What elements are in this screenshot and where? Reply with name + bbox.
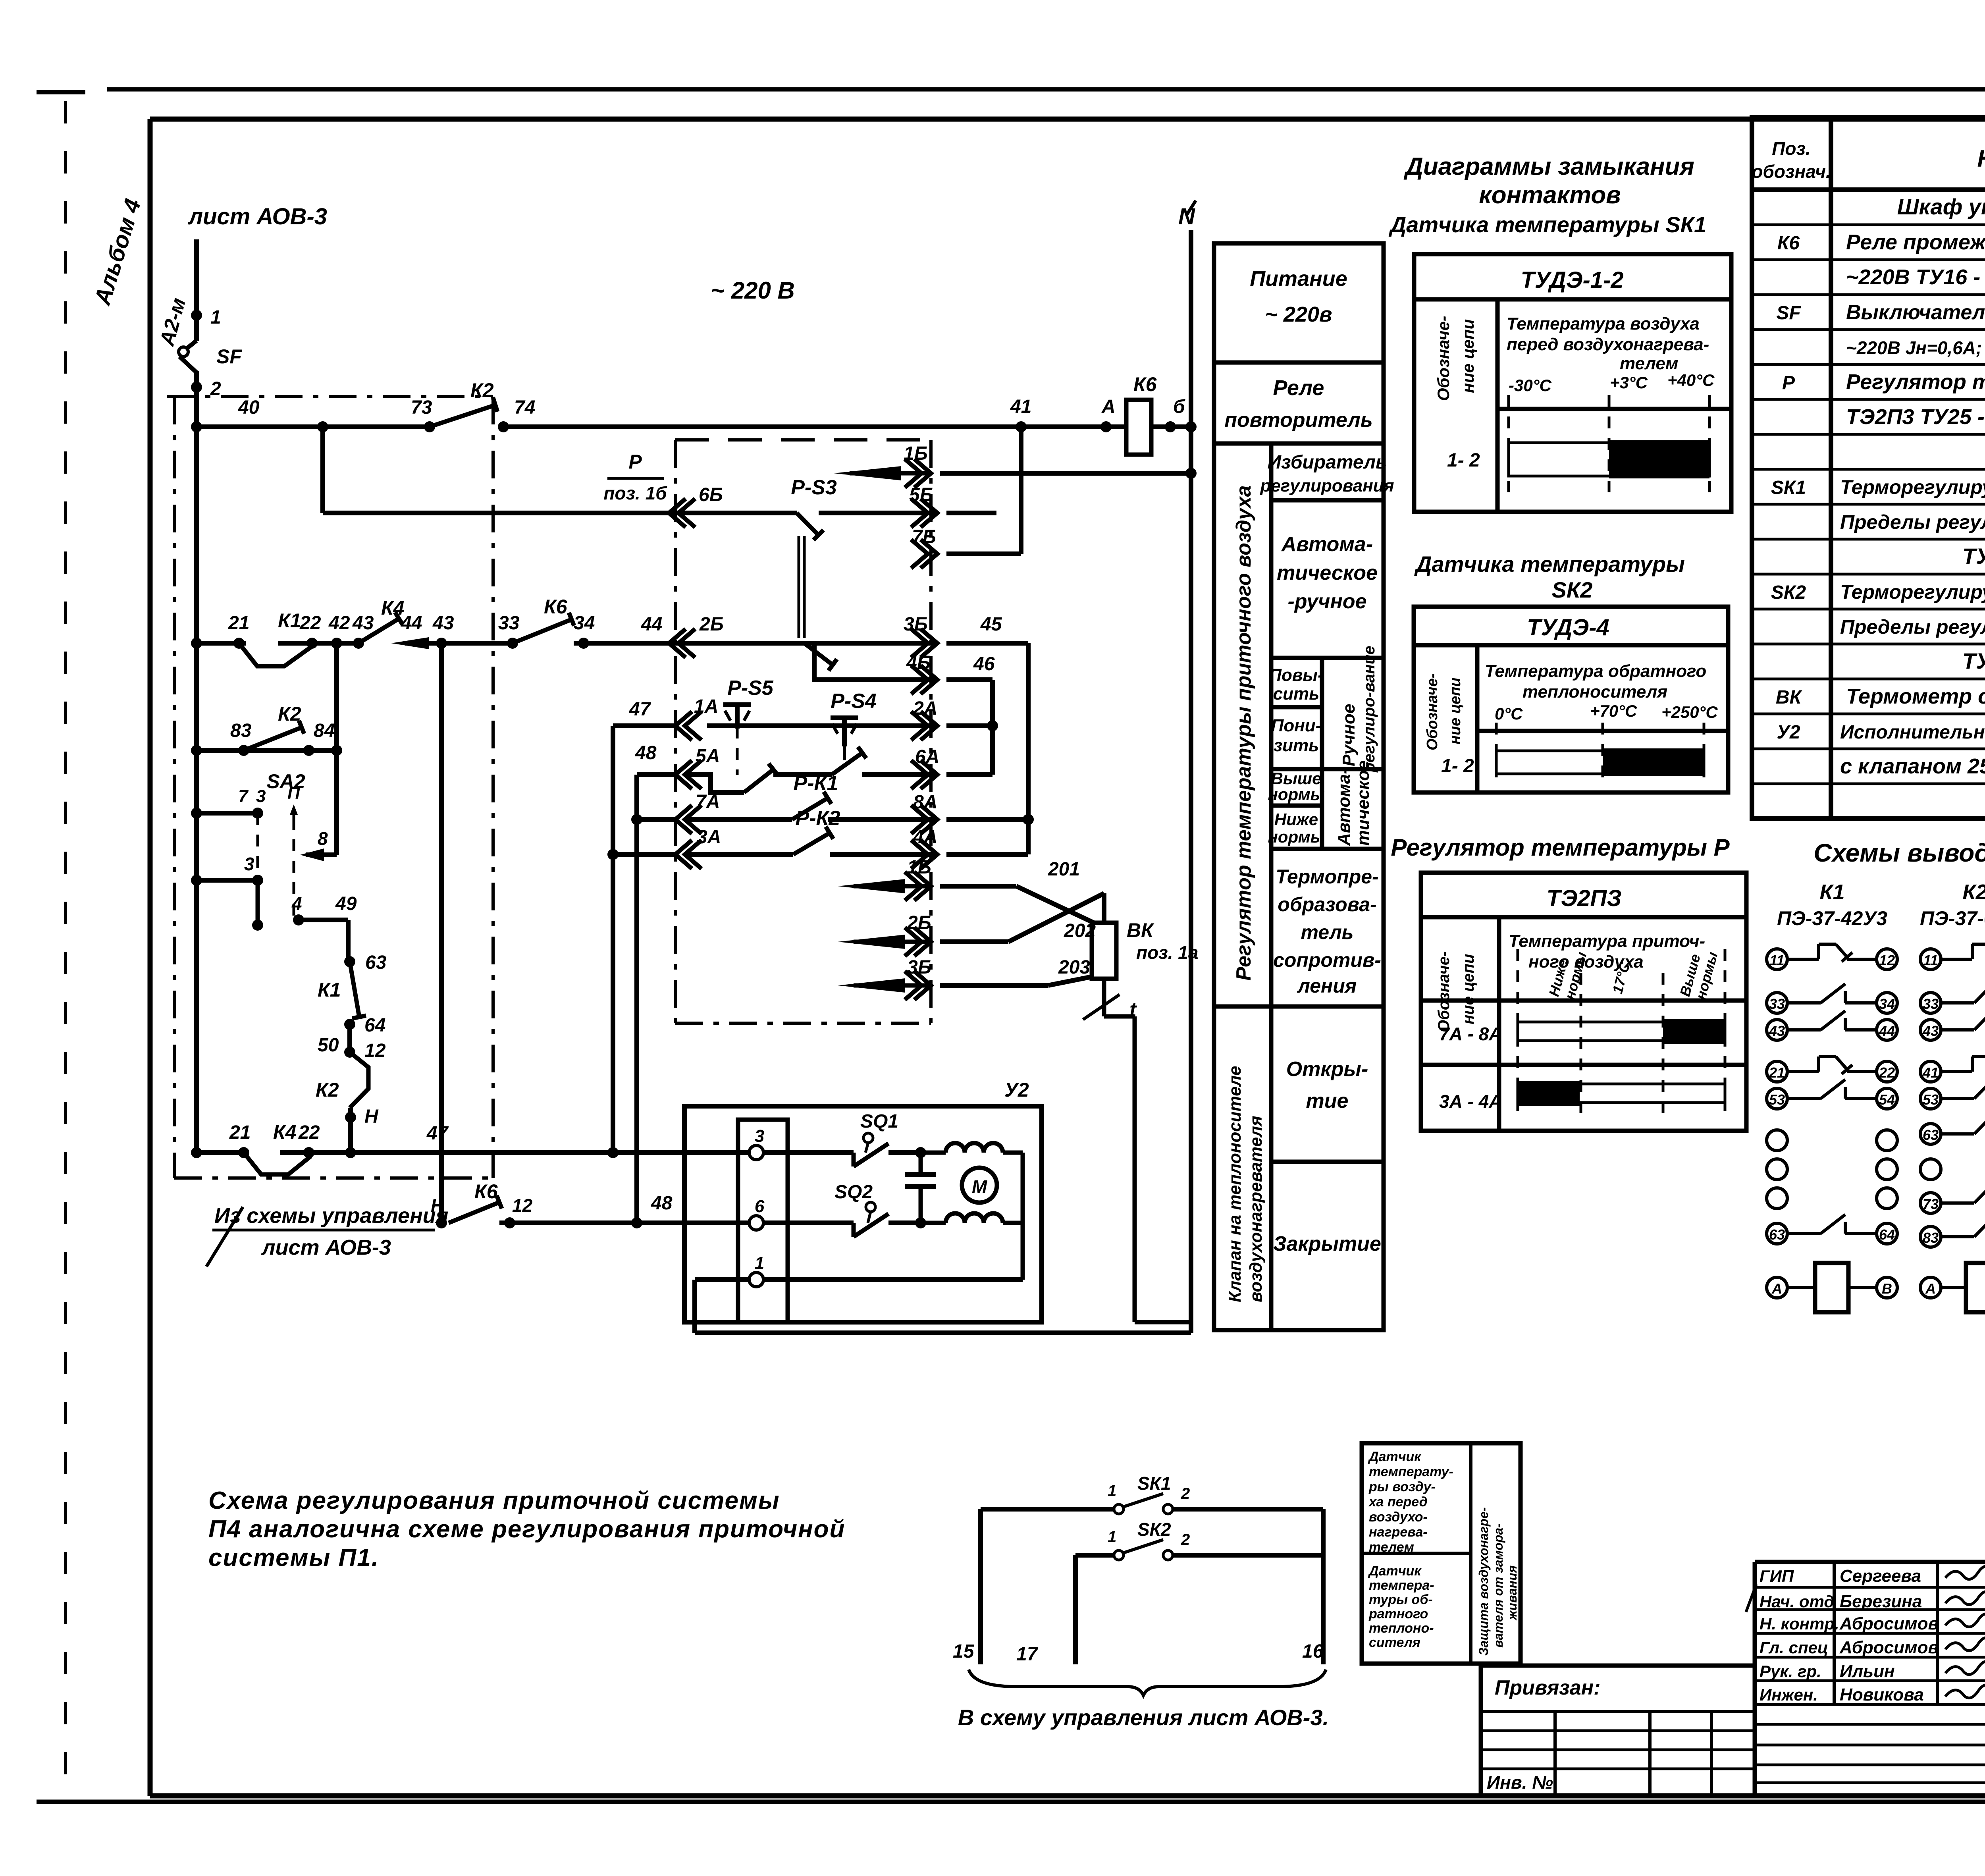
svg-text:12: 12 [364, 1040, 386, 1061]
wire drop 48 vertical [634, 775, 639, 1223]
actuator box U2 [684, 1106, 1042, 1322]
wire 4B right to drop [946, 677, 992, 682]
node 4 [293, 914, 304, 925]
motor winding lower [921, 1221, 946, 1225]
contact K2 vertical zigzag [350, 1052, 368, 1108]
mini wire SK1 right [1173, 1507, 1323, 1512]
wire drop 47 vertical [611, 726, 615, 1153]
svg-text:SК1: SК1 [1771, 477, 1806, 498]
mini contact SK1 [1114, 1504, 1124, 1514]
parts table row line 17 [1752, 783, 1985, 785]
parts table row line 9 [1752, 503, 1985, 506]
function table col line A [1269, 443, 1274, 1330]
SK1 dashed v2 [1608, 395, 1611, 492]
svg-text:SF: SF [216, 345, 242, 368]
sign table row 4 [1755, 1656, 1985, 1659]
svg-text:63: 63 [1923, 1127, 1939, 1143]
node feeder bottom [191, 1147, 202, 1158]
relay K1 contact 21-22 [1767, 1061, 1787, 1082]
svg-text:+70°С: +70°С [1590, 702, 1637, 720]
cabinet boundary dash-dot left [173, 397, 176, 1178]
parts table header line [1752, 187, 1985, 192]
contact K4 bottom [244, 1153, 311, 1174]
node 2 [191, 382, 202, 393]
node 8A drop [1023, 814, 1034, 825]
svg-text:73: 73 [411, 397, 432, 418]
svg-text:4А: 4А [913, 827, 937, 848]
wire 6B to S3 [669, 511, 797, 515]
sensor table outer [1362, 1443, 1521, 1664]
svg-text:А: А [1925, 1280, 1936, 1297]
svg-text:5А: 5А [696, 746, 720, 767]
TE2P3 dashed v3 [1662, 973, 1665, 1116]
svg-text:34: 34 [1879, 996, 1895, 1012]
parts table row line 8 [1752, 468, 1985, 471]
svg-text:ТУ25 - 02. 1074 - 75: ТУ25 - 02. 1074 - 75 [1962, 648, 1985, 673]
wire row 47 left [197, 1150, 246, 1155]
svg-text:нагрева-: нагрева- [1369, 1525, 1428, 1540]
node 12b [504, 1217, 515, 1228]
svg-text:1А: 1А [694, 696, 718, 717]
svg-text:43: 43 [1769, 1023, 1785, 1039]
node 48-drop [631, 1217, 642, 1228]
svg-text:44: 44 [401, 613, 422, 634]
svg-text:48: 48 [651, 1193, 673, 1214]
svg-text:2: 2 [1181, 1531, 1190, 1548]
svg-text:33: 33 [1923, 996, 1939, 1012]
wire 8A [828, 817, 937, 822]
svg-text:Р-К1: Р-К1 [794, 772, 838, 795]
svg-text:64: 64 [1879, 1226, 1895, 1243]
svg-text:63: 63 [1769, 1226, 1785, 1243]
svg-text:Абросимов: Абросимов [1839, 1614, 1939, 1633]
svg-text:Датчика температуры: Датчика температуры [1414, 551, 1685, 576]
svg-text:Откры-: Откры- [1286, 1058, 1368, 1081]
svg-text:Ильин: Ильин [1840, 1662, 1895, 1681]
svg-text:11: 11 [1769, 952, 1784, 968]
relay K2 contact 43-44 [1920, 1020, 1941, 1040]
svg-text:Обозначе-: Обозначе- [1434, 316, 1453, 401]
node 3A on drop [607, 849, 619, 860]
terminal 1 [749, 1273, 763, 1287]
svg-text:нормы: нормы [1268, 785, 1324, 804]
svg-text:84: 84 [314, 720, 335, 741]
TE2P3 row2 open span [1518, 1084, 1725, 1103]
switch on 5A (S4) [832, 753, 862, 775]
svg-text:Инжен.: Инжен. [1760, 1685, 1818, 1704]
wire 5B stub [946, 511, 996, 515]
svg-text:повторитель: повторитель [1224, 409, 1372, 432]
svg-text:46: 46 [973, 654, 995, 675]
svg-text:Регулятор температуры приточно: Регулятор температуры приточного воздуха [1232, 485, 1255, 981]
svg-text:образова-: образова- [1278, 893, 1376, 916]
svg-text:нормы: нормы [1268, 827, 1324, 846]
svg-text:темпера-: темпера- [1369, 1578, 1434, 1593]
node on feeder row3 [191, 875, 202, 886]
svg-text:тие: тие [1306, 1089, 1349, 1112]
svg-text:ха перед: ха перед [1368, 1494, 1428, 1510]
svg-text:64: 64 [364, 1015, 385, 1036]
svg-text:Инв. №: Инв. № [1487, 1772, 1553, 1793]
svg-text:3: 3 [244, 854, 254, 874]
table TE2P3 col [1497, 917, 1501, 1131]
TE2P3 row1 open span [1518, 1022, 1725, 1041]
svg-text:1: 1 [1108, 1482, 1116, 1500]
TE2P3 row split 1 [1421, 999, 1746, 1003]
row Термопреобразователь [1214, 1005, 1384, 1009]
parts table row line 7 [1752, 433, 1985, 436]
svg-text:4Б: 4Б [906, 652, 931, 673]
mini wire SK2 row [1075, 1553, 1114, 1558]
svg-text:41: 41 [1922, 1064, 1939, 1081]
svg-text:50: 50 [318, 1035, 339, 1056]
node on wire 40 at feeder [191, 421, 202, 432]
svg-text:теплоносителя: теплоносителя [1522, 682, 1667, 702]
wire 201 [940, 884, 1016, 889]
svg-text:43: 43 [1922, 1023, 1939, 1039]
wire 3A row [613, 852, 675, 857]
terminal 1B chevron [914, 459, 931, 488]
mini wire SK1 row [981, 1507, 1114, 1512]
row Ниже нормы [1271, 847, 1384, 851]
node 22 [306, 638, 318, 649]
svg-text:1- 2: 1- 2 [1441, 756, 1474, 777]
svg-text:2Б: 2Б [699, 614, 724, 635]
svg-text:вателя от замора-: вателя от замора- [1491, 1523, 1505, 1648]
svg-text:Р-К2: Р-К2 [796, 807, 840, 830]
svg-text:регулирования: регулирования [1260, 476, 1394, 496]
svg-text:лист АОВ-3: лист АОВ-3 [261, 1236, 391, 1259]
svg-text:42: 42 [328, 613, 350, 634]
left grid horizontals [1481, 1710, 1755, 1713]
svg-text:Защита воздухонагре-: Защита воздухонагре- [1476, 1507, 1491, 1656]
wire N vertical [1189, 230, 1193, 1333]
cabinet boundary dash-dot right [491, 397, 495, 1178]
contact K6 row48 [449, 1202, 499, 1223]
svg-text:Р: Р [1782, 372, 1795, 393]
TE2P3 dashed v1 [1517, 949, 1519, 1116]
left margin dashed vertical [64, 101, 67, 1799]
svg-text:16: 16 [1302, 1641, 1324, 1662]
contact K4 row 2B [358, 619, 399, 643]
svg-text:33: 33 [498, 613, 520, 634]
terminal strip [738, 1120, 788, 1322]
SA2 dashed stem 1 [256, 813, 259, 880]
node 43b [436, 638, 447, 649]
svg-text:11: 11 [1923, 952, 1938, 968]
svg-text:Терморегулирующее устройство Т: Терморегулирующее устройство ТУДЭ-1-2 [1840, 476, 1985, 498]
relay K2 contact 11-12 [1920, 949, 1941, 970]
function table outer [1214, 243, 1384, 1330]
svg-text:б: б [1173, 396, 1185, 417]
svg-text:регулиро-вание: регулиро-вание [1361, 646, 1378, 773]
svg-text:ления: ления [1297, 975, 1357, 997]
svg-text:2: 2 [210, 378, 221, 399]
svg-text:туры об-: туры об- [1369, 1592, 1433, 1607]
wire row 47 right [280, 1150, 749, 1155]
svg-text:43: 43 [432, 613, 454, 634]
mini wire left vertical 15 [978, 1509, 983, 1664]
TE2P3 row1 closed bar [1663, 1019, 1725, 1044]
SK1 open span [1509, 443, 1709, 476]
svg-text:~ 220в: ~ 220в [1265, 303, 1332, 326]
signature squiggle 1 [1945, 1591, 1985, 1604]
relay K2 spare [1920, 1159, 1941, 1180]
arrow on 1B wire [834, 466, 901, 480]
switch on 5A (S5) [744, 769, 773, 792]
svg-text:22: 22 [1879, 1064, 1895, 1081]
wire 5A mid [773, 772, 832, 777]
svg-text:ПЭ-37-42У3: ПЭ-37-42У3 [1777, 907, 1887, 929]
wire 202 [940, 939, 1008, 944]
svg-text:В схему управления лист АОВ: В схему управления лист АОВ-3. [958, 1705, 1329, 1730]
svg-text:Датчик: Датчик [1368, 1564, 1422, 1579]
left grid verticals [1553, 1712, 1557, 1796]
relay K2 contact 73-74 [1920, 1193, 1941, 1213]
relay K1 coil [1767, 1277, 1787, 1298]
relay K2 contact 83-84 [1920, 1226, 1941, 1247]
TE2P3 row2 closed bar [1518, 1081, 1580, 1106]
terminal 2A chevron [921, 711, 937, 740]
svg-text:ратного: ратного [1368, 1606, 1428, 1621]
svg-text:ТУДЭ-4: ТУДЭ-4 [1527, 615, 1609, 640]
terminal 8A chevron [921, 805, 937, 834]
arrow 201 row [838, 879, 905, 893]
svg-text:Повы-: Повы- [1269, 665, 1323, 685]
wire row 21-K1-22-42-43-K4-44-43-33-K6-34 [197, 641, 246, 646]
contact K2 row83 [244, 727, 302, 750]
svg-text:Регулятор температуры Р: Регулятор температуры Р [1391, 834, 1730, 861]
svg-text:Р: Р [628, 451, 642, 473]
svg-text:Привязан:: Привязан: [1495, 1676, 1600, 1699]
terminal 1B-201 chevron [914, 872, 931, 900]
node at feeder row2B [191, 638, 202, 649]
svg-text:SК2: SК2 [1137, 1519, 1171, 1540]
wire 2B to 3B inside box [669, 641, 937, 646]
svg-text:Пределы регулирования от 0°С д: Пределы регулирования от 0°С до +250°С [1840, 616, 1985, 638]
svg-text:Датчик: Датчик [1368, 1449, 1422, 1464]
signature squiggle 3 [1945, 1637, 1985, 1650]
row Открытие [1271, 1160, 1384, 1164]
table TUDE-4 col [1475, 645, 1480, 792]
parts table row line 2 [1752, 258, 1985, 261]
svg-text:Термопре-: Термопре- [1276, 866, 1378, 888]
cabinet boundary dash-dot bottom [174, 1176, 493, 1180]
wire row 83-84 [197, 748, 337, 753]
svg-text:Р-S5: Р-S5 [727, 677, 774, 700]
node on feeder row83 [191, 745, 202, 756]
svg-text:Из схемы управления: Из схемы управления [214, 1204, 448, 1228]
terminal 5B chevron [921, 499, 937, 527]
switch P-S4 symbol [831, 715, 858, 720]
node on feeder row7 [191, 808, 202, 819]
wire row 48 [499, 1220, 749, 1225]
wire feeder vertical below SF [194, 371, 199, 1153]
parts table row line 12 [1752, 608, 1985, 611]
wire SQ1 to node [888, 1150, 921, 1155]
sheet bottom edge line [37, 1800, 1985, 1804]
TE2P3 row split 2 [1421, 1063, 1746, 1067]
svg-text:зить: зить [1274, 736, 1319, 755]
svg-text:44: 44 [1879, 1023, 1895, 1039]
table TUDE-1-2 outer [1414, 254, 1731, 512]
svg-text:SК2: SК2 [1771, 582, 1806, 603]
sign table row 5 [1755, 1679, 1985, 1682]
table TUDE-4 outer [1414, 607, 1728, 792]
svg-text:У2: У2 [1777, 722, 1800, 743]
wire 3B to drop x2590 [946, 641, 1028, 646]
regulator P box dash-dot right [929, 440, 933, 1023]
node 73 [424, 421, 435, 432]
TE2P3 dashed v4 [1724, 949, 1727, 1116]
sign table col name [1833, 1562, 1836, 1704]
svg-text:4: 4 [291, 893, 302, 914]
svg-text:Избиратель: Избиратель [1267, 452, 1387, 473]
sign table row 7 [1755, 1723, 1985, 1726]
table TUDE-1-2 col [1495, 299, 1500, 512]
parts table outer [1752, 118, 1985, 819]
relay K1 contact 63-64 [1767, 1223, 1787, 1244]
function table row Питание [1214, 361, 1384, 365]
node 12 [344, 1047, 355, 1058]
parts table row line 6 [1752, 398, 1985, 401]
svg-text:83: 83 [1923, 1230, 1939, 1246]
node 84-42 drop [331, 745, 342, 756]
table TUDE-1-2 header [1414, 297, 1731, 302]
svg-text:+250°С: +250°С [1661, 703, 1718, 721]
node 63 [344, 956, 355, 967]
svg-text:Датчика температуры SК1: Датчика температуры SК1 [1389, 212, 1706, 237]
terminal 3B-203 chevron [914, 971, 931, 1000]
parts table row line 3 [1752, 293, 1985, 296]
P-S5 dashed stem [736, 727, 739, 775]
terminal 6 [749, 1216, 763, 1230]
wire term3 to SQ1 [763, 1150, 854, 1155]
svg-text:живания: живания [1505, 1565, 1519, 1621]
svg-text:~220В ТУ16 - 5: ~220В ТУ16 - 523.622-82 [1846, 265, 1985, 289]
svg-text:Клапан на теплоносителе: Клапан на теплоносителе [1225, 1066, 1245, 1302]
svg-text:Закрытие: Закрытие [1273, 1232, 1381, 1255]
svg-text:SQ2: SQ2 [834, 1182, 873, 1203]
svg-text:Пони-: Пони- [1271, 716, 1322, 735]
node 83 [238, 745, 249, 756]
relay K1 contact 33-34 [1767, 993, 1787, 1013]
relay K2 contact 41-22 [1920, 1061, 1941, 1082]
node 21 [233, 638, 245, 649]
svg-text:6Б: 6Б [699, 484, 723, 505]
wire H down [348, 1108, 353, 1153]
table TE2P3 outer [1421, 873, 1746, 1131]
svg-text:Сергеева: Сергеева [1840, 1566, 1921, 1586]
svg-text:М: М [972, 1176, 988, 1197]
mini wire SK2 right [1173, 1553, 1323, 1558]
svg-text:Абросимов: Абросимов [1839, 1638, 1939, 1657]
svg-text:поз. 1б: поз. 1б [603, 483, 667, 503]
node 7 [252, 808, 263, 819]
svg-text:203: 203 [1058, 957, 1090, 978]
resistance thermometer BK [1092, 923, 1116, 979]
svg-text:SК2: SК2 [1552, 577, 1593, 602]
svg-text:+3°С: +3°С [1610, 373, 1648, 392]
parts table row line 15 [1752, 713, 1985, 715]
wire 2A right [946, 723, 992, 728]
svg-text:ры возду-: ры возду- [1368, 1479, 1436, 1494]
svg-text:контактов: контактов [1479, 181, 1621, 209]
leader line [206, 1207, 243, 1267]
wire row 8 [300, 848, 324, 861]
svg-text:48: 48 [635, 742, 657, 764]
svg-text:3Б: 3Б [904, 614, 928, 635]
svg-text:Питание: Питание [1250, 267, 1347, 291]
svg-text:Температура воздуха: Температура воздуха [1507, 314, 1700, 334]
svg-text:тическое: тическое [1353, 760, 1373, 846]
parts table row line 11 [1752, 573, 1985, 576]
SK2 dashed v2 [1601, 723, 1604, 784]
svg-text:К1: К1 [278, 609, 301, 632]
arrow 202 row [838, 935, 905, 949]
relay K1 spare 2 [1767, 1159, 1787, 1180]
wire 1B to N [940, 471, 1191, 476]
switch P-S5 symbol [723, 702, 751, 707]
svg-text:теплоно-: теплоно- [1369, 1621, 1434, 1636]
sensor table col [1469, 1443, 1472, 1664]
svg-text:53: 53 [1769, 1091, 1785, 1108]
wire term6 to SQ2 [763, 1220, 854, 1225]
contact K2 on wire 40 [430, 405, 495, 427]
parts table row line 13 [1752, 643, 1985, 646]
wire row 7-3 upper [197, 811, 258, 816]
svg-text:У2: У2 [1004, 1079, 1029, 1101]
svg-text:3А: 3А [697, 827, 721, 848]
relay K2 contact 33-34 [1920, 993, 1941, 1013]
svg-text:17: 17 [1016, 1644, 1039, 1665]
node 21b [238, 1147, 249, 1158]
svg-text:Н. контр.: Н. контр. [1760, 1614, 1839, 1633]
svg-text:-ручное: -ручное [1287, 590, 1366, 613]
row Понизить [1271, 767, 1384, 771]
svg-text:ние цепи: ние цепи [1459, 319, 1477, 393]
signature squiggle 2 [1945, 1614, 1985, 1627]
SK2 closed bar [1603, 748, 1704, 776]
svg-text:Реле: Реле [1273, 376, 1324, 400]
svg-text:Ниже: Ниже [1274, 810, 1318, 829]
row split SK1 [1497, 407, 1731, 411]
svg-text:ТЭ2П3 ТУ25 - 02. 200166 - 8: ТЭ2П3 ТУ25 - 02. 200166 - 82 [1846, 405, 1985, 429]
regulator P box dash-dot bottom [675, 1022, 931, 1025]
table TE2P3 header [1421, 915, 1746, 920]
svg-text:+40°С: +40°С [1667, 371, 1715, 389]
svg-text:К6: К6 [1133, 373, 1157, 395]
wire 5A right [862, 772, 937, 777]
regulator P box dashed top [675, 438, 931, 442]
svg-text:А: А [1771, 1280, 1782, 1297]
function table row Реле [1214, 442, 1384, 446]
mini contact SK2 [1114, 1550, 1124, 1560]
svg-text:Температура приточ-: Температура приточ- [1509, 931, 1705, 951]
terminal 2B-202 chevron [914, 927, 931, 956]
svg-text:ПЭ-37-62У3: ПЭ-37-62У3 [1920, 907, 1985, 929]
terminal 3B chevron [921, 629, 937, 657]
svg-text:Нач. отд: Нач. отд [1760, 1592, 1834, 1611]
terminal 7B chevron [921, 540, 937, 568]
svg-text:3А - 4А: 3А - 4А [1439, 1091, 1502, 1112]
svg-text:Схема регулирования приточной: Схема регулирования приточной системы [208, 1487, 780, 1514]
svg-text:сопротив-: сопротив- [1273, 949, 1381, 971]
row split SK2 [1477, 729, 1728, 733]
svg-text:Схемы выводов контактов и: Схемы выводов контактов и обмоток реле [1813, 839, 1985, 867]
parts table row line 16 [1752, 748, 1985, 750]
terminal 3A chevron [675, 840, 692, 869]
